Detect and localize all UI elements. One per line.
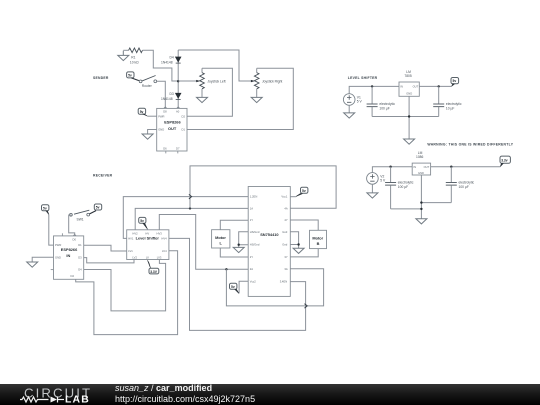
potentiometer Joystick Right: [251, 68, 283, 97]
capacitor C1 electrolytic 100uF: [367, 86, 396, 116]
wire chip 1Y to Motor L top: [220, 220, 248, 230]
WARNING note: [427, 142, 513, 146]
svg-text:Joystick Left: Joystick Left: [207, 80, 225, 84]
svg-text:PWR: PWR: [158, 114, 164, 118]
ground (chip left HS/Gnd): [233, 247, 244, 252]
svg-text:GND: GND: [418, 171, 424, 175]
ground (Joystick Right): [251, 97, 262, 102]
footer bar: [0, 384, 540, 405]
junction dot (cap C1 branch): [371, 85, 373, 87]
ground (chip right Gnd): [293, 248, 304, 253]
wire Level Shifter HV2 to chip 1A (node HV2/1A/4A): [135, 208, 248, 229]
op-chip SN754410 U1: [248, 187, 290, 297]
svg-text:D2: D2: [71, 274, 75, 278]
ground (under R1): [118, 51, 129, 61]
svg-text:LV4: LV4: [162, 249, 167, 253]
svg-text:electrolytic: electrolytic: [446, 102, 462, 106]
wire vertical 4A-branch: [190, 166, 336, 209]
junction arrow (1,2EN wire x vertical): [189, 194, 192, 198]
svg-text:5v: 5v: [453, 79, 457, 83]
flag 5v (Vcc2): [230, 283, 239, 293]
wire LM1086 GND down: [391, 175, 452, 219]
wire PWR lead (ESP OUT): [147, 115, 157, 117]
wire GND lead (ESP OUT): [148, 130, 157, 135]
wire ESP IN D2 to Level Shifter LV4: [76, 251, 178, 335]
capacitor C3 electrolytic 100uF: [385, 167, 414, 209]
svg-text:LEVEL SHIFTER: LEVEL SHIFTER: [348, 76, 378, 80]
junction dot (GND x C3): [420, 208, 422, 210]
SENDER section label: [93, 76, 109, 80]
wire V2 bottom stub: [371, 184, 373, 193]
svg-text:100 µF: 100 µF: [398, 185, 408, 189]
junction dot (1A wire x vertical): [189, 207, 191, 209]
switch SW Router: [139, 76, 157, 89]
motor M-L: [212, 230, 230, 248]
wire ESP IN D1 to Level Shifter LV1: [84, 245, 127, 251]
svg-text:5 V: 5 V: [380, 179, 386, 183]
wire Motor L bottom to chip 2Y: [220, 248, 248, 257]
svg-text:ESP8266: ESP8266: [61, 247, 78, 252]
svg-text:D8: D8: [163, 109, 167, 113]
svg-text:D4: D4: [78, 268, 82, 272]
capacitor C4 electrolytic 100uF: [446, 167, 475, 203]
wire Vcc1 lead: [290, 196, 296, 198]
wire Motor B bottom to chip 3Y: [290, 249, 318, 257]
svg-text:LV: LV: [146, 256, 149, 260]
CircuitLab logo: [0, 382, 100, 405]
wire V1 top to LM7805 IN: [349, 86, 399, 93]
RECEIVER section label: [93, 174, 113, 178]
op-chip Level Shifter: [127, 230, 169, 260]
svg-text:Gnd: Gnd: [282, 230, 288, 234]
svg-text:Vcc1: Vcc1: [281, 195, 287, 199]
svg-text:OUT: OUT: [413, 85, 419, 89]
svg-text:D1: D1: [182, 128, 186, 132]
ground (ESP IN): [27, 262, 38, 267]
voltage source V1: [343, 94, 362, 106]
svg-text:1N4148: 1N4148: [161, 61, 173, 65]
flag 5v (ESP IN PWR): [42, 205, 49, 215]
wire ESP IN D4 to Level Shifter LV3: [84, 260, 166, 311]
svg-text:SN754410: SN754410: [260, 232, 278, 237]
svg-text:ESP8266: ESP8266: [164, 119, 181, 124]
svg-text:Joystick Right: Joystick Right: [262, 80, 282, 84]
wire V2 top to LM1086 IN: [372, 167, 412, 173]
svg-text:HV4: HV4: [161, 237, 167, 241]
wire R1 to node A (switch/diode row): [143, 50, 178, 81]
svg-text:A0: A0: [176, 109, 180, 113]
svg-text:D0: D0: [73, 237, 77, 241]
wire SW1 to ESP IN D0: [69, 215, 75, 236]
flag 5v (sender switch): [127, 72, 139, 81]
wire Level Shifter HV4 to 3,4EN net: [169, 238, 306, 330]
wire chip 4Y to Motor B top: [290, 220, 318, 230]
ground (Joystick Left): [197, 97, 208, 102]
junction dot (GND x C4): [420, 201, 422, 203]
svg-text:3,4EN: 3,4EN: [280, 279, 288, 283]
svg-text:Gnd: Gnd: [282, 243, 288, 247]
svg-text:5v: 5v: [231, 285, 235, 289]
svg-text:100 µF: 100 µF: [459, 185, 469, 189]
flag 5v (Level Shifter HV): [139, 217, 148, 228]
junction dot (cap C4 branch): [450, 166, 452, 168]
svg-text:D1: D1: [78, 243, 82, 247]
svg-text:Vcc2: Vcc2: [250, 279, 256, 283]
svg-text:GND: GND: [406, 92, 412, 96]
flag 3.3V (Level Shifter LV): [148, 260, 159, 274]
svg-text:HV1: HV1: [128, 237, 134, 241]
wire Level Shifter HV3 to chip 2A: [159, 215, 248, 270]
wire chip HS/Gnd pair: [239, 232, 249, 248]
svg-text:10 µF: 10 µF: [446, 106, 455, 110]
svg-text:IN: IN: [66, 253, 70, 258]
diode D4 1N4148: [161, 56, 182, 65]
svg-text:IN: IN: [400, 85, 403, 89]
switch SW1: [70, 210, 90, 221]
svg-text:2A: 2A: [250, 267, 253, 271]
wire diode column (vertical): [177, 50, 179, 108]
wire 2A-branch down to 3A net: [226, 269, 323, 306]
ground (V1): [344, 113, 355, 118]
op-chip ESP8266 IN: [51, 233, 84, 279]
svg-text:B: B: [317, 241, 320, 246]
wire LM1086 OUT to 3.3v flag: [431, 166, 501, 168]
svg-text:Motor: Motor: [312, 236, 323, 241]
wire 5v flag to ESP IN PWR: [49, 214, 54, 245]
svg-text:1N4148: 1N4148: [161, 97, 173, 101]
svg-text:3Y: 3Y: [284, 255, 287, 259]
wire chip Gnd pair (right): [290, 232, 298, 248]
motor M-B: [310, 230, 327, 248]
svg-text:LV3: LV3: [157, 256, 162, 260]
svg-text:D6: D6: [163, 147, 167, 151]
wire switch to ESP8266 OUT pin D8: [157, 81, 166, 108]
svg-text:WARNING: THIS ONE IS WIRED DIF: WARNING: THIS ONE IS WIRED DIFFERENTLY: [427, 142, 513, 146]
svg-text:LV2: LV2: [132, 256, 137, 260]
svg-text:2Y: 2Y: [250, 255, 253, 259]
wire node A to Joystick Left wiper: [178, 80, 197, 82]
ground (V2): [367, 193, 378, 198]
flag 5v (LM7805 OUT): [451, 78, 459, 87]
ground (LM7805 GND): [404, 139, 415, 144]
wire cap bottom bus (C1-GND-C2): [372, 96, 439, 139]
junction dot (cap C3 branch): [389, 166, 391, 168]
svg-text:D4: D4: [170, 56, 174, 60]
svg-text:1086: 1086: [416, 155, 424, 159]
svg-text:SENDER: SENDER: [93, 76, 109, 80]
wire V1 bottom stub: [348, 105, 350, 113]
svg-text:5v: 5v: [140, 110, 144, 114]
svg-text:electrolytic: electrolytic: [398, 180, 414, 184]
svg-text:3A: 3A: [284, 267, 287, 271]
junction dot (HS/Gnd pair): [238, 244, 240, 246]
svg-text:4Y: 4Y: [284, 218, 287, 222]
LEVEL SHIFTER section label: [348, 76, 378, 80]
svg-text:HS/Gnd: HS/Gnd: [250, 230, 260, 234]
svg-text:5v: 5v: [302, 189, 306, 193]
svg-text:HS/Gnd: HS/Gnd: [250, 243, 260, 247]
svg-text:3.3v: 3.3v: [501, 158, 508, 162]
junction dot (2A wire branch): [225, 268, 227, 270]
svg-text:R1: R1: [131, 55, 135, 59]
svg-text:Level Shifter: Level Shifter: [136, 235, 160, 240]
wire LM7805 OUT to 5v flag: [419, 85, 451, 87]
junction dot (cap C2 branch): [438, 85, 440, 87]
attribution text: [115, 383, 255, 405]
junction dot (Gnd pair): [297, 243, 299, 245]
svg-text:D2: D2: [182, 114, 186, 118]
svg-text:3.3V: 3.3V: [150, 270, 158, 274]
flag 5v (ESP OUT PWR): [138, 108, 147, 116]
svg-text:D3: D3: [170, 92, 174, 96]
svg-text:RECEIVER: RECEIVER: [93, 174, 113, 178]
wire diode-column top to Joystick Right wiper: [178, 50, 252, 81]
diode D3 1N4148: [161, 92, 182, 101]
svg-text:4A: 4A: [284, 207, 287, 211]
junction dot (GND bus): [408, 115, 410, 117]
flag 5v (SW1): [90, 204, 102, 214]
capacitor C2 electrolytic 10uF: [433, 86, 462, 116]
svg-text:D7: D7: [176, 147, 180, 151]
svg-text:LV1: LV1: [128, 249, 133, 253]
svg-text:electrolytic: electrolytic: [379, 102, 395, 106]
wire GND lead (ESP IN): [32, 257, 53, 262]
wire Joystick Left top to ESP8266 OUT D2: [187, 68, 232, 116]
svg-text:D3: D3: [78, 256, 82, 260]
svg-text:100 µF: 100 µF: [379, 106, 389, 110]
flag 5v (Vcc1): [296, 187, 308, 196]
svg-text:1Y: 1Y: [250, 218, 253, 222]
wire Level Shifter HV stub: [146, 228, 148, 230]
wire Level Shifter HV1 to chip 1,2EN: [123, 197, 248, 239]
potentiometer Joystick Left: [196, 68, 225, 97]
ground (ESP OUT): [142, 134, 153, 139]
svg-text:LAB: LAB: [65, 395, 90, 405]
svg-text:GND: GND: [158, 128, 164, 132]
resistor R1: [123, 48, 142, 64]
svg-text:OUT: OUT: [424, 165, 430, 169]
svg-text:5v: 5v: [43, 206, 47, 210]
regulator LM7805: [399, 70, 419, 97]
svg-text:OUT: OUT: [168, 126, 177, 131]
junction arrow (3,4EN vertical x 305.9 wire): [305, 304, 308, 308]
svg-text:Motor: Motor: [215, 235, 226, 240]
svg-text:5 V: 5 V: [357, 100, 363, 104]
flag 3.3v (LM1086 OUT): [500, 156, 510, 166]
svg-text:1A: 1A: [250, 207, 253, 211]
svg-text:5v: 5v: [96, 206, 100, 210]
svg-text:SW1: SW1: [77, 217, 84, 221]
wire ESP IN D3 to Level Shifter LV2: [84, 258, 134, 263]
svg-text:electrolytic: electrolytic: [459, 180, 475, 184]
svg-text:5v: 5v: [140, 219, 144, 223]
svg-text:IN: IN: [413, 165, 416, 169]
svg-text:1,2EN: 1,2EN: [250, 195, 258, 199]
wire Vcc2 lead: [239, 281, 248, 293]
regulator LM1086: [412, 151, 430, 175]
node A junction dot (diode column x wiper wire): [177, 80, 179, 82]
svg-text:5v: 5v: [128, 74, 132, 78]
wire Joystick Right top to ESP8266 OUT D1: [187, 68, 293, 129]
svg-text:Router: Router: [142, 84, 153, 88]
svg-text:GND: GND: [55, 255, 61, 259]
svg-text:10 kΩ: 10 kΩ: [130, 60, 139, 64]
svg-text:7805: 7805: [404, 74, 412, 78]
op-chip ESP8266 OUT: [157, 107, 187, 153]
voltage source V2: [367, 173, 386, 185]
ground (LM1086 GND): [416, 219, 427, 224]
